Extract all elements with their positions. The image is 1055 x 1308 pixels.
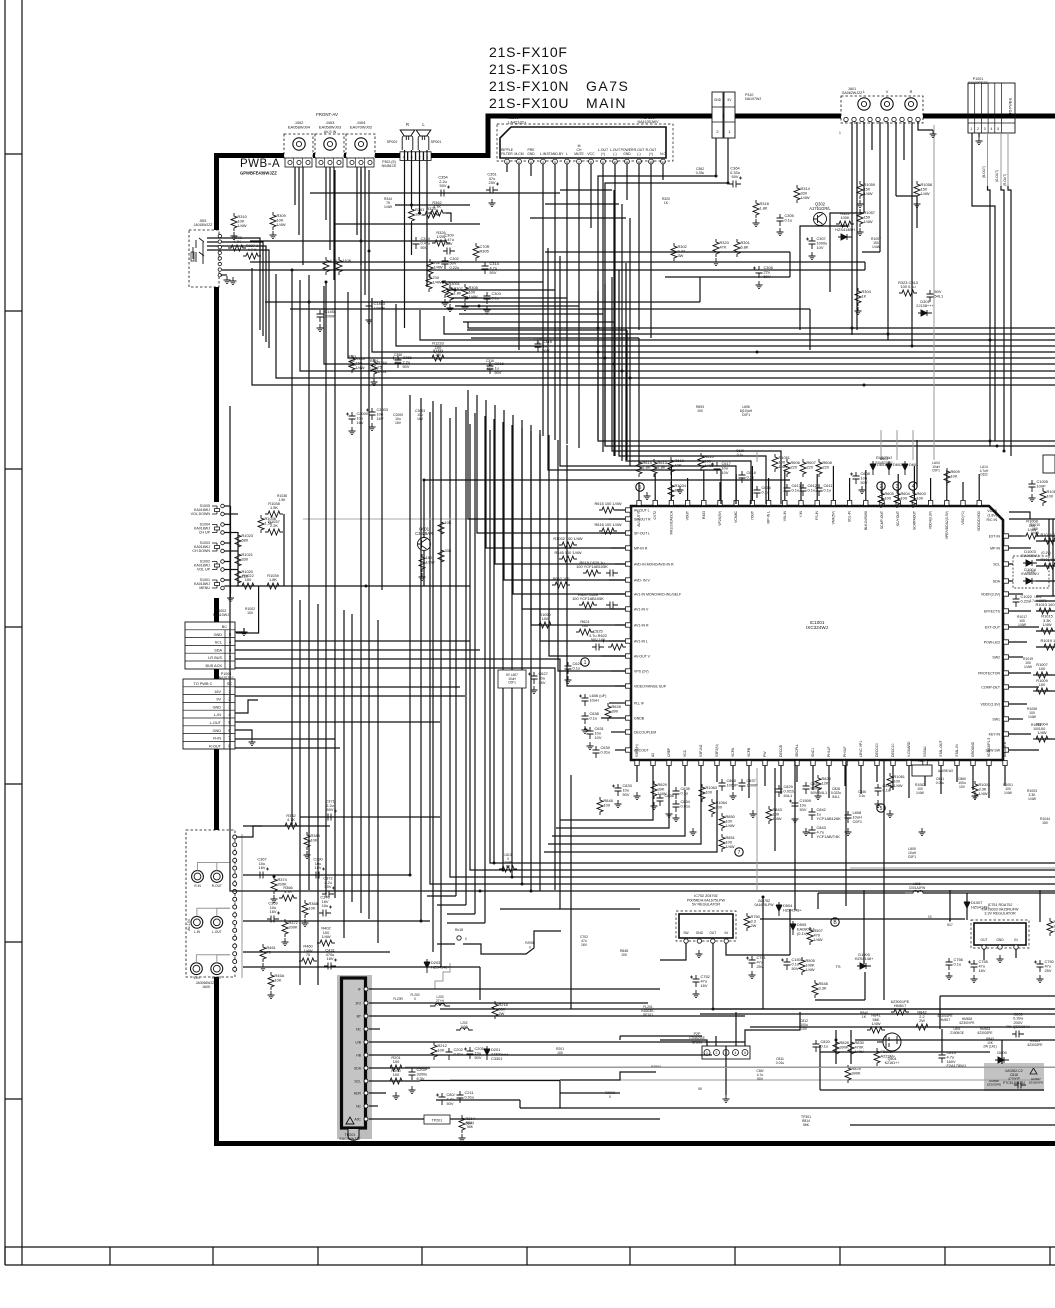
svg-text:1/4W: 1/4W (855, 1049, 864, 1054)
svg-text:10K: 10K (445, 520, 452, 525)
capacitor C755 (968, 959, 988, 973)
svg-text:AV-S IN: AV-S IN (324, 130, 337, 134)
wire IC1001 top stub 11 (800, 482, 802, 500)
label SP002 (387, 140, 398, 144)
resistor R627 (419, 554, 435, 572)
svg-text:100: 100 (557, 1051, 563, 1055)
IC801 pins (505, 159, 666, 164)
svg-text:0.01u: 0.01u (936, 781, 945, 785)
wire bus2 line 1 (598, 291, 1055, 441)
svg-text:C0F1: C0F1 (742, 413, 750, 417)
wire IC801 pin12 (638, 164, 640, 330)
wire bus1 line 2 (444, 316, 1055, 334)
switch S1003 (192, 541, 224, 553)
wire IC752 out (713, 943, 1055, 1009)
svg-text:VOUT: VOUT (686, 511, 690, 520)
resistor R307 (447, 285, 463, 303)
headphone jack contacts (191, 238, 204, 264)
wire IC1001 right stub 12 (1009, 703, 1027, 705)
wire audio h9 (250, 240, 445, 242)
label noise 42 (1023, 657, 1033, 669)
svg-text:VM4(5V): VM4(5V) (831, 511, 835, 524)
wire rv9 (1039, 890, 1041, 922)
svg-text:50V 54L1: 50V 54L1 (811, 790, 828, 795)
svg-text:BC: BC (222, 625, 228, 629)
wire key ladder (236, 585, 470, 587)
RCA jack R-OUT (211, 871, 223, 883)
svg-text:MENU: MENU (199, 586, 210, 590)
svg-text:R-OUT: R-OUT (212, 884, 222, 888)
resistor R3001 (442, 280, 460, 298)
svg-text:7: 7 (738, 850, 741, 856)
junction 27 (1003, 450, 1006, 453)
wire bt run (620, 1035, 702, 1037)
label noise 27 (908, 847, 917, 859)
capacitor C318 (535, 339, 552, 353)
label noise 29 (876, 457, 893, 465)
wire bus1 line 7 (324, 286, 1055, 364)
svg-text:0.1u: 0.1u (762, 489, 770, 494)
svg-text:C3301: C3301 (491, 1056, 502, 1061)
junction spk b (418, 212, 421, 215)
capacitor C835b (1006, 1011, 1029, 1037)
svg-text:BUS ACK: BUS ACK (206, 664, 223, 668)
capacitor C820 (813, 1039, 831, 1052)
wire IC1001 left stub 3 (601, 532, 625, 534)
wire IC1001 left stub 2 (609, 518, 625, 520)
svg-text:VPS (2V): VPS (2V) (634, 670, 649, 674)
speaker SP001 (416, 122, 431, 150)
resistor R843b (766, 806, 782, 824)
wire ru18 path2 (463, 931, 561, 954)
wire JA01 to gnd (918, 122, 933, 130)
wire right h1 (1009, 518, 1055, 520)
svg-text:(+): (+) (601, 152, 605, 156)
wire LOUT row (235, 721, 440, 723)
svg-text:LR BUS: LR BUS (208, 656, 222, 660)
svg-text:1/4W: 1/4W (864, 219, 873, 224)
wire sw out right rail (283, 514, 285, 586)
capacitor C1005 (1029, 479, 1048, 492)
wire sw contact b (224, 585, 238, 587)
IC1001 pin AV1-IN MONO/AVD-INL/SELF (626, 592, 682, 597)
svg-text:SC4/P-OUT: SC4/P-OUT (880, 511, 884, 529)
svg-text:AN MUTE: AN MUTE (1003, 741, 1007, 757)
capacitor C625 (589, 629, 607, 651)
IC1001 pin AVD-IN MONO/AVD-IN R (626, 562, 675, 567)
label JA01 (842, 87, 864, 95)
svg-text:200K: 200K (289, 924, 298, 929)
wire av route 2 (830, 213, 864, 292)
capacitor C629 (606, 570, 618, 577)
svg-text:AV1-IN MONO/AVD-INL/SELF: AV1-IN MONO/AVD-INL/SELF (634, 593, 681, 597)
IC1001 pin SNC1 (811, 748, 815, 766)
svg-text:100: 100 (1039, 682, 1046, 687)
capacitor C2000 (346, 411, 369, 425)
J404 pin strip (347, 158, 374, 167)
svg-text:1.8K: 1.8K (658, 464, 666, 469)
svg-text:CV72: CV72 (653, 511, 657, 520)
svg-text:6Z3002PE: 6Z3002PE (1027, 1043, 1042, 1047)
capacitor C846 (875, 783, 892, 796)
label noise 34 (860, 1011, 868, 1019)
svg-text:50V: 50V (325, 884, 332, 889)
svg-text:75: 75 (306, 952, 310, 957)
wire IC801 pin10 (614, 164, 616, 322)
svg-text:100 YCF1AB105K: 100 YCF1AB105K (572, 596, 604, 601)
resistor R615 (594, 501, 621, 513)
wire rv1 (756, 768, 758, 890)
capacitor C370 (319, 895, 332, 917)
svg-text:JA018WJZZ: JA018WJZZ (194, 223, 213, 227)
RCA jack V-IN (191, 963, 203, 975)
wire pow v1 (835, 1030, 837, 1064)
label P2P (689, 1032, 705, 1044)
svg-text:EAC48WJZZ: EAC48WJZZ (340, 1137, 362, 1141)
svg-text:390K: 390K (840, 1044, 849, 1049)
capacitor C843 (809, 825, 841, 839)
svg-text:0.1u: 0.1u (737, 453, 744, 457)
capacitor C205 (464, 1046, 487, 1060)
capacitor C613 (784, 483, 801, 496)
svg-text:0.01u: 0.01u (601, 749, 611, 754)
svg-text:10K: 10K (415, 211, 422, 216)
resistor R362 (428, 200, 446, 216)
IC1001 pin DECCB (779, 744, 783, 765)
IC1001 pin SCL-IN (847, 501, 851, 523)
TU201 pin 1F2 (355, 1001, 368, 1006)
TU201 pin SCL (354, 1079, 368, 1084)
svg-text:100: 100 (901, 495, 908, 500)
junction 7 (712, 1008, 715, 1011)
wire IC1001 bot stub 2 (652, 766, 654, 790)
ground icbot 7 (815, 792, 822, 800)
svg-text:AA098 WJ: AA098 WJ (938, 769, 953, 773)
label noise 6 (394, 353, 402, 365)
label L812 (1029, 595, 1046, 603)
resistor R829 (651, 781, 667, 799)
resistor R607 (800, 459, 816, 477)
svg-text:75: 75 (267, 949, 271, 954)
wire jack drop 5 (329, 167, 331, 250)
ground C1453 (366, 316, 373, 324)
svg-text:AV1-IN R: AV1-IN R (634, 624, 649, 628)
wire sw contact a (224, 524, 230, 526)
diode D303 (835, 223, 855, 240)
resistor R628 (605, 703, 621, 721)
resistor R642 (552, 576, 570, 588)
svg-text:50V: 50V (327, 807, 334, 812)
resistor R1064 (709, 799, 728, 817)
wire bt v (619, 1036, 621, 1040)
ground C631 (587, 742, 594, 750)
junction 3 (756, 351, 759, 354)
wire pow v3 (941, 1029, 943, 1052)
ground P1002 (241, 628, 248, 636)
wire bus3 line 3 (450, 418, 1055, 877)
IC1001 pin EXT-OUT (985, 625, 1009, 630)
svg-text:C001AJFW: C001AJFW (909, 886, 925, 890)
inductor L203 (430, 1004, 450, 1007)
ground IC751 (997, 955, 1004, 963)
svg-text:EFFECTS: EFFECTS (984, 610, 1001, 614)
capacitor C639 (593, 745, 611, 758)
ground R1057 (857, 228, 864, 236)
wire IC801 pin2 (518, 164, 520, 350)
wire JA01 pin 7 (895, 122, 897, 196)
ruler tick (5, 153, 22, 155)
capacitor C841 (803, 781, 828, 795)
svg-text:SNC1: SNC1 (811, 748, 815, 757)
ground R374 (271, 895, 278, 903)
wire IC1001 left stub 16 (611, 731, 625, 733)
junction 33 (360, 240, 363, 243)
wire vbundle 3 (432, 401, 434, 952)
junction 18 (502, 869, 505, 872)
capacitor C309 (443, 233, 455, 255)
svg-text:SC/YOUT: SC/YOUT (896, 511, 900, 526)
wire IC1001 right stub 7 (1009, 626, 1039, 628)
svg-text:VDDC/DVDD: VDDC/DVDD (977, 510, 981, 531)
svg-text:1/4W: 1/4W (434, 264, 443, 269)
wire IC801 pin13 (650, 164, 652, 338)
label LA14 (980, 465, 989, 477)
IC1001 pin PLL IF (626, 701, 645, 706)
wire P2P pin2 (715, 1036, 717, 1046)
ruler tick (5, 1098, 22, 1100)
junction 29 (727, 182, 730, 185)
wire jack drop 6 (333, 167, 335, 280)
diode D505 (790, 921, 814, 936)
IC1001 pin PROTECTOR (978, 671, 1008, 676)
capacitor C833 (612, 783, 632, 797)
svg-text:3.3V REGULATOR: 3.3V REGULATOR (984, 912, 1016, 916)
IC1001 pin PW (763, 751, 767, 766)
svg-text:R1013 100: R1013 100 (1035, 602, 1055, 607)
test point TP201 (424, 1115, 450, 1124)
svg-text:50V: 50V (764, 274, 771, 279)
transistor Q302 A1751GR/L (809, 202, 831, 226)
resistor R402 (317, 926, 335, 946)
RCA jack JA01 L (858, 98, 870, 110)
wire sw contact b (224, 550, 238, 552)
TU201 pin HB (356, 1053, 368, 1058)
C818 warning triangle (1030, 1068, 1037, 1074)
wire b2 v (817, 893, 819, 909)
ground Q601 (419, 573, 426, 581)
svg-text:50V: 50V (487, 367, 494, 371)
label L203 (436, 995, 445, 1007)
sheet border ruler left (5, 0, 22, 1265)
svg-text:1: 1 (584, 660, 587, 666)
svg-text:N0481CE: N0481CE (382, 164, 397, 168)
svg-text:6Z3002PE: 6Z3002PE (977, 1031, 992, 1035)
label noise 15 (620, 949, 628, 957)
capacitor C829 (776, 784, 796, 798)
IC1001 pin MP-IN R (626, 546, 648, 551)
resistor R324 (855, 288, 872, 306)
resistor R1034 (668, 482, 687, 500)
svg-text:YCF1AB/T4K: YCF1AB/T4K (817, 834, 841, 839)
svg-text:16V: 16V (259, 865, 266, 870)
IC1001 pin EFFECTS (984, 609, 1008, 614)
wire sw to table (236, 586, 259, 633)
svg-text:VDD4(3.3V): VDD4(3.3V) (929, 511, 933, 529)
resistor R216 (492, 1001, 508, 1019)
switch S1005 (191, 504, 225, 516)
wire bus3 line 1 (490, 430, 1055, 863)
svg-text:0: 0 (414, 997, 416, 1001)
IC1001 pin LEVC VP1 (859, 741, 863, 766)
tuner TU201 bottom tab (348, 1129, 359, 1140)
wire AV 817 (300, 816, 440, 818)
svg-text:0.01u: 0.01u (454, 1051, 464, 1056)
wire route drop 6 (614, 322, 616, 456)
svg-text:GND: GND (696, 931, 704, 935)
wire IC801 route c (451, 297, 567, 299)
IC1001 pin FM100/DACCA (669, 501, 673, 535)
svg-text:1.8K: 1.8K (269, 577, 277, 582)
ground icbot 4 (730, 792, 737, 800)
label J402 (288, 120, 311, 130)
svg-text:SW: SW (683, 931, 689, 935)
svg-text:4.7K: 4.7K (284, 889, 292, 894)
svg-text:R-OUT: R-OUT (209, 744, 222, 748)
wire ja005 pin1 (237, 826, 262, 837)
resistor R507 (807, 927, 823, 945)
wire IC1001 top stub 3 (670, 466, 672, 500)
switch S1001 (194, 578, 224, 590)
wire IC1001 top stub 2 (654, 474, 656, 500)
box right edge cut 1 (1043, 455, 1055, 473)
svg-text:50V 100: 50V 100 (591, 637, 606, 642)
svg-text:1/4W: 1/4W (370, 367, 379, 371)
wire IC1001 bot stub 3 (668, 766, 670, 798)
wire TU201 pin run 2 (369, 1002, 648, 1004)
wire jack drop 7 (356, 167, 358, 235)
label noise 28 (1040, 817, 1050, 825)
junction 32 (325, 281, 328, 284)
diode D1003 (1021, 549, 1038, 566)
label HM833 (977, 1027, 992, 1035)
resistor R842 (913, 1010, 931, 1030)
resistor R201 (387, 1055, 405, 1071)
resistor R830 (848, 1039, 865, 1057)
svg-text:GND: GND (213, 705, 222, 709)
svg-text:FRONT-AV: FRONT-AV (316, 112, 338, 117)
wire jack drop 4 (325, 167, 327, 220)
svg-text:HM817: HM817 (894, 1003, 907, 1008)
wire sw contact b (224, 532, 238, 534)
wire IC1001 top stub 1 (638, 482, 640, 500)
wire IC1001 bot stub 19 (924, 766, 926, 786)
resistor R1008 (1023, 519, 1041, 539)
svg-text:0.1u: 0.1u (954, 961, 962, 966)
svg-text:16V: 16V (539, 680, 546, 685)
op-amp IC801 LA42102 body (500, 127, 666, 158)
wire IC1001 left stub 8 (611, 608, 625, 610)
resistor R325 (422, 206, 440, 218)
ground hp (230, 277, 237, 285)
svg-text:DECCB: DECCB (779, 744, 783, 757)
IC801 pin labels (501, 144, 667, 156)
IC1001 pin AV-OUT V (626, 654, 651, 659)
wire IC1001 top stub 15 (865, 470, 867, 500)
wire right edge 8 (1036, 610, 1055, 612)
svg-text:16V: 16V (417, 417, 424, 421)
wire speaker w3 (419, 150, 421, 213)
IC1001 pin AN MUTE (1003, 741, 1007, 765)
label PDA301 (638, 116, 660, 124)
wire icfeed 4 (495, 405, 625, 564)
svg-text:14: 14 (661, 160, 665, 164)
resistor R200 (387, 1068, 405, 1084)
wire right edge 4 (1036, 565, 1055, 567)
thick board outline PWB-A (214, 116, 1055, 1144)
wire AV R (243, 874, 410, 876)
svg-text:10K: 10K (309, 905, 316, 910)
svg-text:16V: 16V (701, 983, 708, 988)
IC1001 pin VDDA3/P1.5 (987, 738, 991, 766)
svg-text:V3F2(N): V3F2(N) (715, 744, 719, 757)
wire IC1001 right stub 13 (1009, 718, 1023, 720)
svg-text:1/4W: 1/4W (469, 294, 478, 299)
diode D1007 (964, 899, 990, 913)
svg-text:Ru18: Ru18 (455, 928, 463, 932)
svg-text:EA080WJ: EA080WJ (1021, 553, 1038, 558)
TU201 pin ADR (354, 1091, 368, 1096)
svg-text:100: 100 (582, 623, 589, 628)
wire right edge 3 (1036, 559, 1055, 561)
resistor R214 (459, 1115, 476, 1133)
svg-text:V: V (886, 90, 889, 94)
label FL200 (410, 993, 419, 1001)
ground below2 (673, 814, 680, 822)
svg-text:SDA: SDA (993, 580, 1001, 584)
node 5 (636, 483, 644, 491)
wire bus1 line 8 (300, 280, 1055, 371)
wire audio h2 (395, 204, 470, 206)
node B (831, 918, 839, 926)
resistor R382 (282, 813, 300, 829)
svg-text:VOL UP: VOL UP (197, 568, 211, 572)
wire IC1001 right stub 10 (1009, 672, 1031, 674)
ground C755 (971, 975, 978, 983)
wire P310 pin1 (605, 138, 728, 445)
wire IC801 pin11 (626, 164, 628, 200)
connector J402 dashed box (284, 134, 313, 158)
capacitor C303 (484, 291, 501, 304)
svg-text:GNDB: GNDB (634, 717, 645, 721)
jumper RJ90B (525, 941, 535, 950)
wire bus1 line 6 (348, 292, 1055, 358)
svg-text:DECCC0: DECCC0 (875, 743, 879, 757)
diode D602 (886, 461, 902, 475)
IC1001 pin KEY-IN (989, 732, 1009, 737)
svg-text:GND: GND (714, 98, 722, 102)
ground icbot 5 (750, 810, 757, 818)
ground C2000 (349, 427, 356, 435)
wire TU201 pin run 11 (369, 1118, 660, 1120)
TU201 warning triangle (346, 1117, 354, 1124)
svg-text:R1019 100: R1019 100 (1040, 638, 1055, 643)
svg-text:SW2: SW2 (992, 656, 1000, 660)
ground JA01 (930, 130, 937, 138)
label noise 8 (486, 359, 494, 371)
ground R1034 (677, 486, 684, 494)
wire route drop 8 (638, 338, 640, 464)
svg-text:16V: 16V (357, 420, 364, 425)
